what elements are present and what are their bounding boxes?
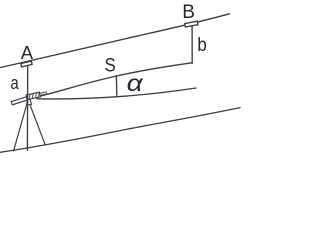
svg-text:S: S: [105, 56, 116, 77]
tripod right leg: [30, 105, 45, 144]
tripod head: [27, 100, 32, 105]
telescope hatching: [28, 93, 40, 99]
svg-text:b: b: [197, 34, 207, 56]
svg-text:α: α: [127, 70, 144, 96]
staff line b: [191, 26, 193, 63]
marker B: [185, 21, 198, 27]
tripod left leg: [14, 106, 27, 151]
tick below S: [115, 76, 117, 96]
wire: slope line through A and B: [1, 14, 230, 68]
telescope tip: [40, 92, 47, 95]
sight line S (instrument to b): [37, 63, 192, 97]
telescope tube: [11, 96, 30, 105]
svg-text:B: B: [182, 2, 195, 23]
svg-text:A: A: [21, 42, 34, 63]
horizontal reference line (alpha): [37, 88, 196, 99]
marker A: [21, 61, 32, 67]
svg-text:a: a: [11, 72, 20, 93]
telescope eyepiece block: [26, 92, 40, 99]
plumb line a (A marker to ground): [26, 66, 28, 150]
ground line: [0, 108, 240, 153]
